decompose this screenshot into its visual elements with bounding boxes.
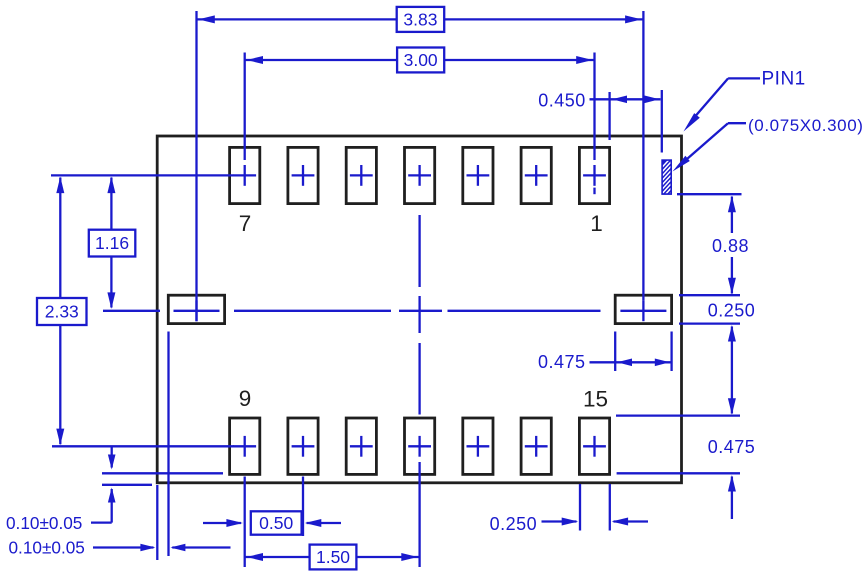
dim 0.450 dimension line — [590, 98, 661, 100]
package center cross — [399, 310, 442, 312]
right side pad cross horizontal arm — [620, 310, 666, 312]
dim 1.16 dimension line — [110, 178, 112, 230]
dim 0.10±0.05 horizontal arrows — [93, 546, 154, 548]
svg-text:0.88: 0.88 — [712, 236, 749, 256]
extension line at package bottom edge, left part — [102, 484, 152, 486]
extension line below side pad left edge — [167, 332, 169, 557]
svg-text:9: 9 — [239, 386, 252, 411]
dim 0.250 pad width arrows — [542, 520, 577, 522]
extension line at side pad top — [679, 294, 740, 296]
dim 0.50 extension line at pad 10 center — [302, 477, 304, 537]
svg-text:15: 15 — [583, 387, 608, 412]
top pad 5 center cross — [350, 174, 373, 176]
bottom pad 11 center cross — [350, 445, 373, 447]
dim 3.83 dimension line — [197, 18, 397, 20]
dim 3.00 value box — [397, 48, 444, 73]
pad 1 centerline dash below cross — [593, 188, 595, 195]
top pad 7 — [230, 147, 260, 203]
extension line at bottom pad bottom edge, left part — [102, 472, 223, 474]
bottom pad 12 center cross — [408, 445, 431, 447]
bottom pad 15 — [579, 418, 609, 474]
top pad 4 center cross — [408, 174, 431, 176]
dim 3.83 left extension line — [195, 11, 197, 321]
bottom pad 12 — [405, 418, 435, 474]
dim 2.33 value box — [37, 298, 87, 325]
svg-text:2.33: 2.33 — [45, 302, 79, 322]
pin1 marker leader arrowhead — [673, 156, 690, 172]
top pad 7 center cross — [233, 174, 256, 176]
dim 0.475 lower arrow segment — [731, 477, 733, 520]
dim 0.88 upper arrow segment — [731, 197, 733, 234]
right side pad (pad 16) — [615, 295, 671, 323]
PIN1 leader arrowhead — [684, 113, 700, 131]
dim 0.50 extension line at pad 9 center — [244, 477, 246, 568]
bottom pad 10 center cross — [292, 445, 315, 447]
top pad 2 — [521, 147, 551, 203]
arrow segment between 0.250 and 0.475 — [731, 327, 733, 414]
dim 3.00 left extension line — [244, 53, 246, 161]
dim 3.83 value box — [397, 7, 445, 32]
top pad 2 center cross — [525, 174, 548, 176]
svg-text:1.50: 1.50 — [316, 547, 350, 567]
bottom left extension line at bottom pad centerline — [52, 445, 234, 447]
dim 1.16 value box — [89, 230, 136, 257]
top left extension line at top pad centerline — [51, 174, 234, 176]
svg-text:(0.075X0.300): (0.075X0.300) — [748, 116, 864, 135]
dim 2.33 dimension line — [59, 178, 61, 299]
extension line at pin1 marker bottom — [677, 193, 742, 195]
dim 3.00 right extension line — [593, 53, 595, 161]
svg-text:PIN1: PIN1 — [762, 68, 806, 89]
bottom pad 10 — [288, 418, 318, 474]
extension line at bottom pad bottom edge, right part — [617, 472, 740, 474]
horizontal centerline dashes — [103, 310, 160, 312]
dim 0.475 side pad width extension ticks — [614, 332, 616, 372]
top pad 3 center cross — [467, 174, 490, 176]
svg-text:3.83: 3.83 — [403, 9, 437, 29]
dim 1.50 dimension line — [245, 556, 310, 558]
bottom pad 15 center cross — [583, 445, 606, 447]
vertical centerline dashes — [418, 215, 420, 287]
dim 0.10±0.05 vertical lower arrow and leader — [111, 489, 113, 523]
bottom pad 13 — [463, 418, 493, 474]
dim 0.50 arrows — [203, 522, 241, 524]
extension line at side pad bottom — [679, 322, 740, 324]
dim 3.83 right extension line — [642, 11, 644, 300]
top pad 1 center cross — [583, 174, 606, 176]
svg-text:0.10±0.05: 0.10±0.05 — [9, 537, 85, 557]
svg-text:0.475: 0.475 — [708, 437, 756, 457]
dim 0.475 side pad width dimension line — [590, 361, 672, 363]
svg-text:3.00: 3.00 — [404, 50, 438, 70]
bottom pad 11 — [346, 418, 376, 474]
dim 3.00 dimension line — [245, 59, 397, 61]
pin1 hatched marker (filled with white hatch slashes) — [661, 159, 672, 195]
dim 0.250 pad width extension lines — [579, 484, 581, 531]
top pad 6 center cross — [292, 174, 315, 176]
svg-text:0.50: 0.50 — [259, 513, 293, 533]
svg-text:0.250: 0.250 — [708, 300, 756, 320]
svg-text:0.450: 0.450 — [538, 90, 586, 110]
dim 0.50 value box — [251, 511, 302, 534]
PIN1 leader line — [728, 77, 760, 79]
svg-text:0.10±0.05: 0.10±0.05 — [6, 513, 82, 533]
bottom pad 14 center cross — [525, 445, 548, 447]
bottom pad 9 — [230, 418, 260, 474]
top pad 3 — [463, 147, 493, 203]
top pad 5 — [346, 147, 376, 203]
bottom pad 14 — [521, 418, 551, 474]
svg-text:0.250: 0.250 — [490, 514, 538, 534]
svg-text:0.475: 0.475 — [538, 352, 586, 372]
pin1 marker leader line — [728, 122, 746, 124]
bottom pad 9 center cross — [233, 445, 256, 447]
dim 0.450 extension tick at pad 1 right edge — [608, 92, 610, 140]
top pad 4 — [405, 147, 435, 203]
dim 0.88 lower arrow segment — [731, 257, 733, 294]
left side pad (pad 8) — [168, 295, 224, 323]
svg-text:1: 1 — [590, 211, 603, 236]
extension line at bottom pad top edge — [616, 414, 740, 416]
top pad 6 — [288, 147, 318, 203]
left side pad cross vertical arm — [195, 300, 197, 321]
package body outline — [157, 136, 681, 483]
extension line below package left edge — [156, 485, 158, 560]
top pad 1 — [579, 147, 609, 203]
bottom pad 13 center cross — [467, 445, 490, 447]
dim 0.10±0.05 vertical upper arrow — [111, 446, 113, 467]
svg-text:7: 7 — [239, 211, 252, 236]
dim 1.50 value box — [310, 545, 357, 570]
dim 0.450 extension tick at pin1 marker left edge — [661, 90, 663, 153]
right side pad cross vertical arm — [642, 300, 644, 321]
svg-text:1.16: 1.16 — [95, 233, 129, 253]
